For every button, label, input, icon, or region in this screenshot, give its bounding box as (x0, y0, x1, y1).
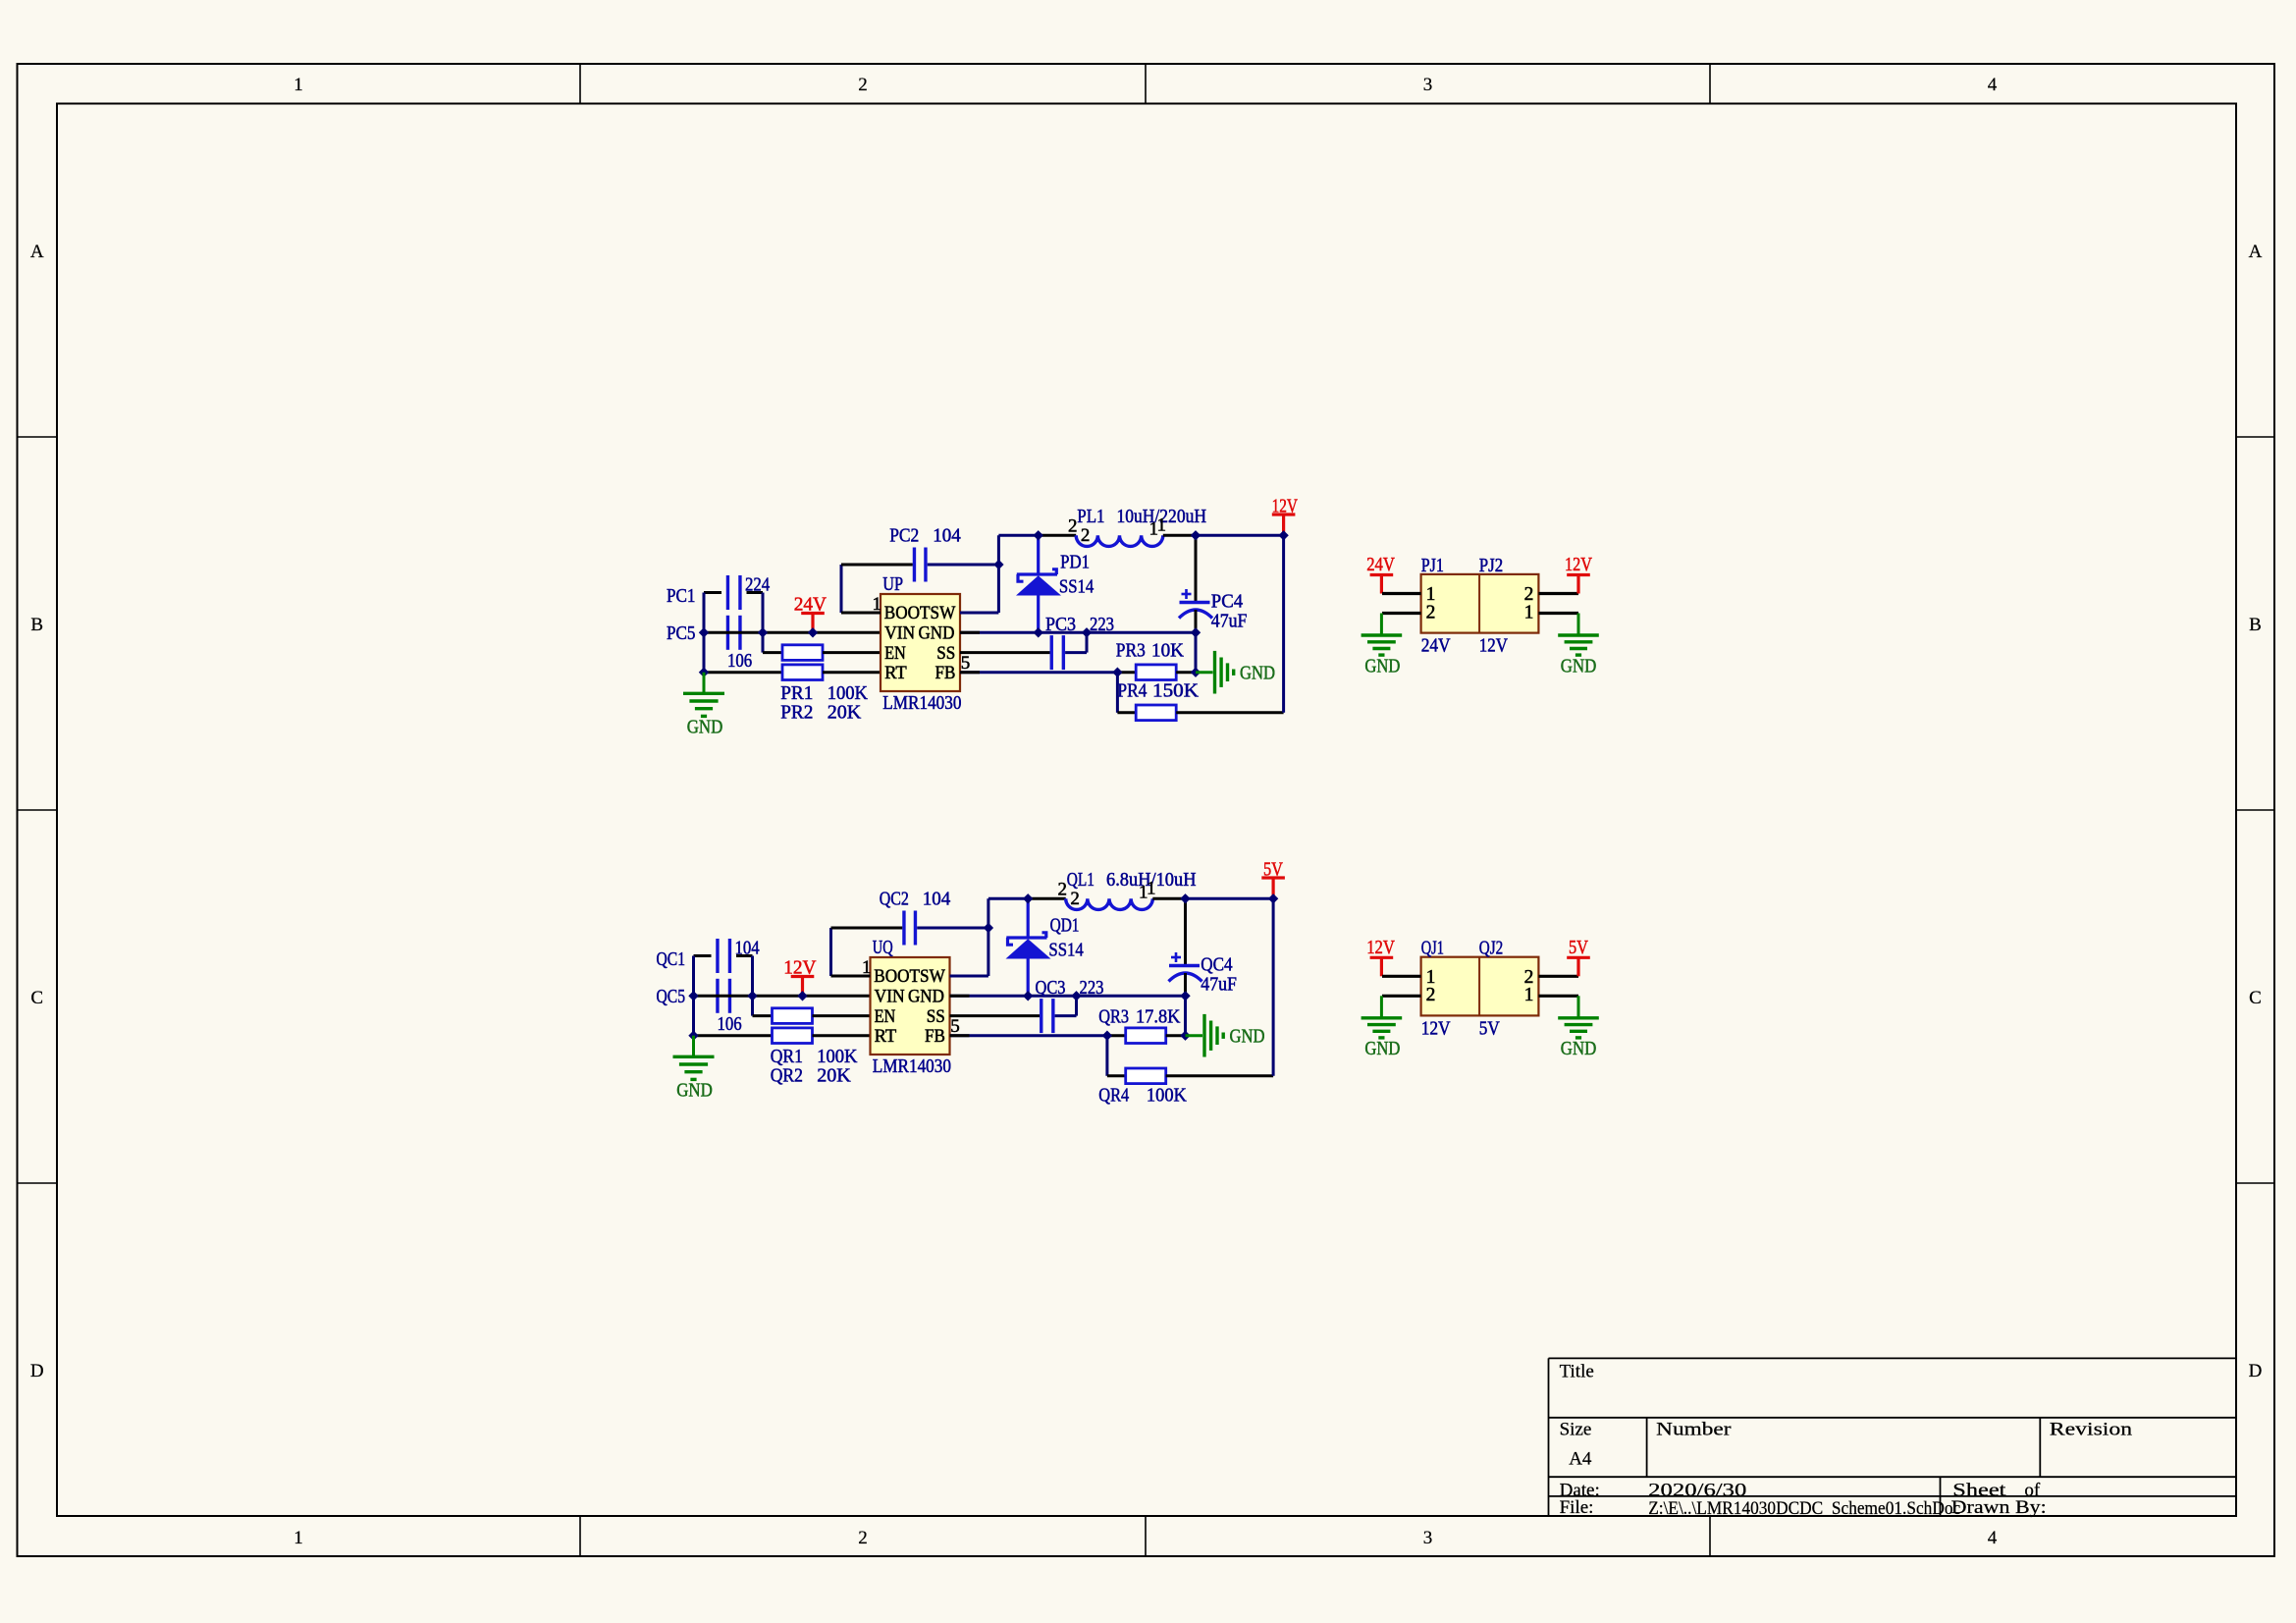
capacitor PC5 (726, 616, 729, 650)
svg-text:BOOTSW: BOOTSW (874, 966, 945, 987)
svg-text:104: 104 (933, 525, 961, 547)
junction (1023, 893, 1033, 903)
svg-text:3: 3 (1423, 1528, 1433, 1548)
wire SW node (988, 897, 1028, 900)
svg-text:47uF: 47uF (1211, 611, 1248, 632)
svg-text:QC4: QC4 (1201, 954, 1232, 976)
wire PC1 row (704, 591, 721, 594)
svg-text:1: 1 (294, 75, 303, 95)
power 12V (QJ1) (1370, 956, 1394, 959)
inductor QL1 (1066, 898, 1153, 909)
wire left vertical PC1-PC5 (703, 593, 706, 673)
svg-text:GND: GND (1230, 1025, 1265, 1047)
diode PD1 SS14 (1037, 535, 1040, 574)
boot loop wire (840, 565, 843, 613)
svg-text:GND: GND (676, 1079, 713, 1101)
svg-text:C: C (2249, 988, 2262, 1008)
power 5V (output) (1261, 876, 1285, 879)
junction (1180, 893, 1190, 903)
svg-text:GND: GND (1364, 655, 1400, 676)
junction (699, 668, 709, 677)
SW riser wire (997, 535, 1000, 613)
svg-text:B: B (30, 615, 43, 635)
resistor QR4 (1105, 1036, 1108, 1076)
ground GND (input) (703, 673, 706, 692)
wire inductor to output (1163, 534, 1196, 537)
svg-text:PC2: PC2 (889, 525, 919, 547)
svg-text:QR3: QR3 (1098, 1006, 1129, 1028)
junction (1268, 893, 1278, 903)
svg-text:Size: Size (1560, 1419, 1592, 1439)
svg-text:224: 224 (745, 574, 770, 596)
svg-text:PJ2: PJ2 (1479, 555, 1503, 576)
svg-text:5V: 5V (1569, 937, 1588, 958)
svg-text:A4: A4 (1569, 1449, 1592, 1470)
svg-text:QC2: QC2 (880, 889, 909, 910)
wire VIN row (694, 995, 871, 998)
wire GND row (950, 995, 1186, 998)
svg-text:QJ1: QJ1 (1421, 938, 1444, 959)
svg-text:PC1: PC1 (667, 585, 696, 607)
wire right vertical QC1-QC5 (751, 956, 754, 1016)
connector QJ1 (1421, 957, 1539, 1016)
svg-text:GND: GND (1561, 655, 1597, 676)
ground GND (sideways) (1196, 671, 1213, 674)
svg-text:BOOTSW: BOOTSW (884, 603, 956, 623)
svg-text:LMR14030: LMR14030 (882, 692, 961, 714)
svg-text:RT: RT (875, 1026, 897, 1047)
wire GND row (960, 631, 1196, 634)
svg-text:12V: 12V (1565, 554, 1592, 575)
svg-text:Drawn By:: Drawn By: (1951, 1497, 2047, 1518)
svg-text:GND: GND (1240, 662, 1275, 683)
svg-text:SS14: SS14 (1059, 575, 1094, 597)
svg-text:D: D (2249, 1361, 2263, 1381)
svg-text:PJ1: PJ1 (1421, 555, 1444, 576)
capacitor PC2 (913, 548, 916, 582)
svg-text:1: 1 (294, 1528, 303, 1548)
ground GND (input) (692, 1036, 695, 1055)
svg-text:PC4: PC4 (1211, 591, 1243, 613)
svg-text:GND: GND (919, 622, 955, 643)
svg-text:1: 1 (1147, 879, 1156, 899)
svg-text:Title: Title (1560, 1362, 1594, 1382)
svg-text:A: A (2249, 242, 2263, 262)
svg-text:UQ: UQ (873, 937, 893, 958)
junction (1071, 991, 1081, 1001)
svg-text:150K: 150K (1152, 680, 1199, 702)
ground GND (sideways) (1186, 1034, 1203, 1037)
connector PJ1 (1421, 574, 1539, 633)
svg-text:106: 106 (727, 650, 752, 672)
svg-text:104: 104 (923, 889, 951, 910)
svg-text:2: 2 (1058, 880, 1068, 900)
junction (1102, 1031, 1112, 1041)
svg-text:4: 4 (1988, 75, 1998, 95)
wire EN link (763, 651, 782, 654)
svg-text:12V: 12V (1421, 1017, 1451, 1039)
power 12V (input) (791, 975, 815, 978)
capacitor QC1 (716, 939, 719, 973)
wire output gnd drop (1195, 632, 1198, 672)
ground GND (PJ2) (1577, 614, 1580, 634)
capacitor QC2 (902, 911, 905, 946)
svg-text:QC3: QC3 (1036, 977, 1066, 999)
svg-text:GND: GND (687, 716, 723, 737)
svg-text:SS: SS (927, 1006, 945, 1027)
resistor PR2 (782, 665, 823, 680)
junction (1034, 530, 1043, 540)
diode QD1 SS14 (1027, 898, 1030, 938)
junction (688, 1031, 698, 1041)
power 24V (PJ1) (1370, 573, 1394, 576)
svg-text:VIN: VIN (875, 986, 905, 1006)
svg-text:QD1: QD1 (1050, 914, 1080, 936)
wire EN link (753, 1014, 773, 1017)
resistor PR4 (1116, 673, 1119, 713)
power 12V (PJ2) (1567, 573, 1590, 576)
power 12V (output) (1272, 513, 1296, 515)
svg-text:EN: EN (884, 643, 906, 664)
svg-text:1: 1 (1524, 602, 1534, 622)
svg-text:PR4: PR4 (1117, 680, 1147, 702)
svg-text:QJ2: QJ2 (1479, 938, 1503, 959)
junction (1112, 668, 1122, 677)
capacitor QC3 (1040, 999, 1042, 1033)
wire output rail (1272, 898, 1275, 1076)
svg-text:12V: 12V (1366, 937, 1395, 958)
svg-text:QC1: QC1 (657, 948, 686, 970)
svg-text:223: 223 (1090, 614, 1114, 635)
svg-text:10K: 10K (1151, 640, 1184, 662)
svg-text:106: 106 (718, 1013, 742, 1035)
svg-text:RT: RT (884, 663, 907, 683)
boot loop wire (829, 928, 832, 976)
svg-text:223: 223 (1080, 977, 1104, 999)
ground GND (QJ2) (1577, 996, 1580, 1016)
svg-text:12V: 12V (1272, 496, 1299, 517)
svg-text:5: 5 (961, 653, 971, 674)
svg-text:12V: 12V (1479, 635, 1509, 657)
svg-text:100K: 100K (828, 682, 869, 704)
svg-text:24V: 24V (1421, 635, 1451, 657)
junction (688, 991, 698, 1001)
svg-text:47uF: 47uF (1201, 974, 1237, 996)
svg-text:20K: 20K (828, 702, 862, 724)
junction (699, 627, 709, 637)
svg-text:1: 1 (1157, 515, 1167, 536)
svg-text:2: 2 (1070, 889, 1080, 909)
wire left vertical QC1-QC5 (692, 956, 695, 1036)
svg-text:100K: 100K (817, 1046, 858, 1067)
wire VIN row (704, 631, 881, 634)
resistor QR2 (773, 1028, 813, 1044)
svg-text:1: 1 (1524, 985, 1534, 1005)
resistor QR1 (773, 1008, 813, 1024)
resistor PR3 (1136, 665, 1176, 680)
svg-text:5: 5 (950, 1016, 960, 1037)
svg-text:B: B (2249, 615, 2262, 635)
svg-text:D: D (30, 1361, 44, 1381)
svg-text:QC5: QC5 (657, 986, 686, 1007)
svg-text:5V: 5V (1263, 859, 1283, 881)
svg-text:2: 2 (858, 1528, 868, 1548)
svg-text:2: 2 (1426, 602, 1436, 622)
svg-text:File:: File: (1560, 1497, 1594, 1518)
wire RT row (704, 671, 782, 674)
svg-text:5V: 5V (1479, 1017, 1500, 1039)
svg-text:QR2: QR2 (771, 1065, 803, 1087)
svg-text:2: 2 (858, 75, 868, 95)
svg-text:4: 4 (1988, 1528, 1998, 1548)
capacitor PC4 47uF (1195, 535, 1198, 601)
wire right vertical PC1-PC5 (762, 593, 765, 653)
inductor PL1 (1076, 535, 1163, 546)
junction (993, 560, 1003, 569)
wire SS row (960, 651, 1050, 654)
svg-text:C: C (30, 988, 43, 1008)
wire SW node (998, 534, 1038, 537)
svg-text:Revision: Revision (2050, 1419, 2133, 1439)
resistor QR3 (1126, 1028, 1166, 1044)
svg-text:A: A (30, 242, 44, 262)
junction (1082, 627, 1092, 637)
power 5V (QJ2) (1567, 956, 1590, 959)
svg-text:SS: SS (936, 643, 955, 664)
svg-text:PR1: PR1 (780, 682, 813, 704)
svg-text:2: 2 (1081, 525, 1091, 546)
svg-text:2: 2 (1068, 516, 1078, 537)
svg-text:PD1: PD1 (1060, 551, 1090, 572)
wire output gnd drop (1184, 996, 1187, 1035)
svg-text:12V: 12V (783, 957, 817, 979)
svg-text:PR2: PR2 (780, 702, 813, 724)
title block (1549, 1357, 2237, 1359)
svg-text:PL1: PL1 (1077, 506, 1104, 527)
svg-text:FB: FB (935, 663, 956, 683)
wire FB row (950, 1034, 1107, 1037)
wire output rail (1282, 535, 1285, 713)
svg-text:GND: GND (1561, 1038, 1597, 1059)
svg-text:PC5: PC5 (667, 622, 696, 644)
svg-text:104: 104 (735, 938, 760, 959)
wire QC1 row (694, 954, 712, 957)
wire RT row (694, 1034, 773, 1037)
junction (984, 923, 993, 933)
capacitor QC5 (716, 979, 719, 1013)
svg-text:24V: 24V (794, 594, 828, 616)
svg-text:PC3: PC3 (1045, 614, 1076, 635)
ground GND (QJ1) (1380, 996, 1383, 1016)
svg-text:LMR14030: LMR14030 (873, 1055, 951, 1077)
capacitor PC3 (1050, 635, 1053, 670)
op-amp UQ LMR14030 (871, 957, 950, 1055)
junction (1278, 530, 1288, 540)
svg-text:FB: FB (925, 1026, 945, 1047)
svg-text:24V: 24V (1366, 554, 1395, 575)
svg-text:SS14: SS14 (1048, 939, 1083, 960)
svg-text:2: 2 (1426, 985, 1436, 1005)
wire SS row (950, 1014, 1041, 1017)
svg-text:QR1: QR1 (771, 1046, 803, 1067)
svg-text:Z:\E\..\LMR14030DCDC_Scheme01.: Z:\E\..\LMR14030DCDC_Scheme01.SchDoc (1648, 1498, 1960, 1519)
svg-text:QR4: QR4 (1098, 1084, 1129, 1106)
resistor PR1 (782, 645, 823, 661)
svg-text:GND: GND (1364, 1038, 1400, 1059)
svg-text:QL1: QL1 (1067, 869, 1095, 891)
svg-text:UP: UP (882, 573, 903, 595)
svg-text:PR3: PR3 (1116, 640, 1146, 662)
junction (1191, 530, 1201, 540)
ground GND (PJ1) (1380, 614, 1383, 634)
capacitor QC4 47uF (1184, 898, 1187, 964)
wire inductor to output (1152, 897, 1185, 900)
capacitor PC1 (726, 575, 729, 610)
svg-text:20K: 20K (817, 1065, 851, 1087)
SW riser wire (987, 898, 989, 976)
svg-text:17.8K: 17.8K (1136, 1006, 1181, 1028)
wire FB row (960, 671, 1117, 674)
op-amp UP LMR14030 (881, 594, 960, 691)
svg-text:VIN: VIN (884, 622, 915, 643)
power 24V (input) (801, 612, 825, 615)
svg-text:100K: 100K (1147, 1084, 1187, 1106)
svg-text:Number: Number (1656, 1419, 1732, 1439)
svg-text:EN: EN (875, 1006, 896, 1027)
svg-text:GND: GND (908, 986, 944, 1006)
svg-text:3: 3 (1423, 75, 1433, 95)
